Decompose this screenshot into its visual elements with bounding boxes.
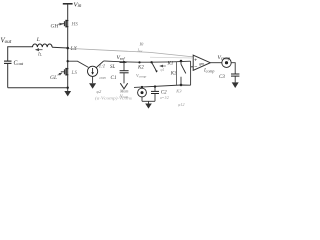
IL current arrow <box>36 49 43 51</box>
transistor HS <box>61 20 69 28</box>
node K3 top <box>180 60 183 63</box>
svg-text:IL: IL <box>37 52 43 57</box>
wire: Vout corner <box>8 47 33 61</box>
wire: Cout down to bottom rail <box>7 63 9 87</box>
node mem rail <box>180 84 183 87</box>
wire: Vref node rail <box>104 61 191 62</box>
capacitor Cout <box>4 61 12 63</box>
svg-text:K3: K3 <box>175 89 182 94</box>
svg-text:I0: I0 <box>139 42 145 47</box>
svg-text:φ1: φ1 <box>161 68 165 72</box>
wire: tap to minus input <box>191 66 194 68</box>
ground (main, arrow style) <box>64 91 71 96</box>
svg-text:K2: K2 <box>137 65 144 70</box>
current meter (Icomp) <box>222 58 231 67</box>
wire: right vertical to inverting input <box>190 61 192 85</box>
switch SL <box>96 61 103 68</box>
capacitor C2 <box>154 87 156 92</box>
GH gate arrow <box>59 23 63 25</box>
capacitor C3 <box>231 73 239 75</box>
switch K3 <box>180 61 182 64</box>
svg-text:gm: gm <box>199 61 204 66</box>
wire: mem rail <box>134 85 191 87</box>
node: sense branch junction <box>67 60 69 62</box>
node LX <box>66 47 69 50</box>
node CS2 tap <box>141 86 143 88</box>
wire: CS1 to ground <box>92 76 94 83</box>
wire: faint plus-input line <box>150 56 192 59</box>
node K1 switch tap <box>150 61 152 63</box>
svg-text:Isw: Isw <box>137 48 144 54</box>
wire: inductor current sense line <box>69 48 193 57</box>
svg-text:C2: C2 <box>161 91 167 96</box>
svg-text:C1: C1 <box>111 75 117 81</box>
wire: CS2/C2 bottom <box>142 100 155 102</box>
node K2 tap <box>138 61 140 63</box>
svg-text:GL: GL <box>50 75 57 81</box>
svg-text:con: con <box>100 75 106 80</box>
svg-text:SL: SL <box>110 65 116 70</box>
svg-text:Icomp: Icomp <box>203 68 214 73</box>
current source CS2 (discharge) <box>138 88 147 97</box>
transistor LS <box>61 68 69 76</box>
node C2 tap <box>154 85 156 87</box>
wire: bottom rail <box>8 87 68 89</box>
ground (C3) <box>232 82 239 88</box>
inductor L <box>33 44 53 47</box>
GL gate arrow <box>58 73 62 75</box>
wire: meter to C3 <box>231 63 235 74</box>
svg-text:Vout: Vout <box>1 37 12 45</box>
ground (CS1) <box>89 83 96 89</box>
wire: op-amp output <box>210 62 222 64</box>
svg-text:Vcomp: Vcomp <box>136 73 147 79</box>
svg-text:Vin: Vin <box>74 1 82 9</box>
current source CS1 (1:1 sense) <box>88 66 98 76</box>
switch K1 <box>152 62 157 71</box>
wire: inductor to LX <box>52 46 68 49</box>
svg-text:Vcomp: Vcomp <box>218 55 232 61</box>
svg-text:GH: GH <box>51 24 60 30</box>
svg-text:L: L <box>36 37 40 43</box>
svg-text:Vref: Vref <box>117 55 126 61</box>
ground (C1) <box>120 83 127 89</box>
Vin supply bar <box>63 3 73 5</box>
svg-text:+: + <box>194 57 197 63</box>
node: rail junction <box>67 87 69 89</box>
svg-text:−: − <box>194 65 197 71</box>
capacitor C1 <box>123 62 125 70</box>
svg-text:φ2: φ2 <box>97 89 102 94</box>
svg-text:(a·Vcomp)·Vcons: (a·Vcomp)·Vcons <box>95 96 133 101</box>
node C1 tap <box>123 61 125 63</box>
svg-text:a=1/2: a=1/2 <box>160 96 169 100</box>
wire: main vertical rail <box>67 4 69 91</box>
svg-text:φ12: φ12 <box>178 102 185 107</box>
wire: K3 left branch <box>175 62 177 86</box>
wire: branch to current sensor <box>68 61 89 67</box>
svg-text:HS: HS <box>71 22 79 28</box>
svg-text:C3: C3 <box>219 75 225 80</box>
svg-text:K3: K3 <box>170 71 177 76</box>
K1 pointer arrow <box>160 65 166 67</box>
svg-text:Cout: Cout <box>14 60 24 66</box>
op-amp U1 <box>193 55 210 70</box>
ground (C2) <box>145 104 152 109</box>
svg-text:LS: LS <box>71 70 78 76</box>
svg-text:K1: K1 <box>167 61 174 66</box>
